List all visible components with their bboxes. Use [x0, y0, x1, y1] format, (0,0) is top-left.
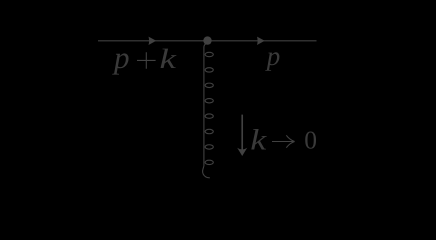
- svg-text:k: k: [250, 125, 267, 157]
- svg-text:k: k: [160, 44, 177, 75]
- svg-text:0: 0: [304, 125, 317, 154]
- svg-text:p: p: [112, 40, 130, 75]
- svg-text:p: p: [265, 41, 281, 71]
